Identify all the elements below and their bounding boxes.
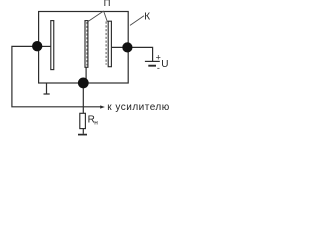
plate P2 dashed membrane line bbox=[86, 22, 88, 66]
battery U long plate bbox=[145, 60, 160, 62]
wire (below resistor) bbox=[82, 129, 84, 134]
wire (left branch: from left junction, left, down, right to amplifier) bbox=[12, 46, 101, 106]
junction right bbox=[122, 42, 132, 52]
junction left bbox=[32, 41, 42, 51]
wire (battery branch: right junction to battery) bbox=[127, 47, 152, 61]
resistor RH bbox=[80, 113, 86, 128]
plate P2 bbox=[85, 21, 88, 68]
plate P3 bbox=[108, 21, 111, 66]
case K (box outline) bbox=[39, 12, 129, 84]
plate P1 bbox=[51, 21, 54, 70]
svg-text:К: К bbox=[144, 12, 150, 23]
wire (plate P2 stem down to bottom junction) bbox=[85, 67, 87, 80]
svg-text:к усилителю: к усилителю bbox=[107, 102, 170, 113]
arrowhead (to amplifier) bbox=[100, 105, 105, 108]
ground (case, under box) bbox=[44, 83, 50, 94]
wire (plate P3 to right junction) bbox=[111, 46, 128, 48]
svg-text:П: П bbox=[104, 0, 111, 9]
wire (left junction to plate P1) bbox=[38, 45, 51, 47]
svg-text:U: U bbox=[161, 59, 168, 70]
svg-text:н: н bbox=[94, 119, 98, 126]
leader lines П bbox=[88, 11, 107, 22]
svg-text:-: - bbox=[157, 63, 160, 73]
battery U short plate bbox=[148, 65, 156, 67]
ground (below resistor) bbox=[78, 134, 87, 136]
wire (bottom junction down through resistor node) bbox=[82, 83, 84, 113]
junction bottom bbox=[78, 78, 89, 89]
leader line K bbox=[130, 16, 144, 26]
plate P3 dashed line bbox=[105, 22, 107, 65]
svg-text:+: + bbox=[156, 52, 161, 62]
